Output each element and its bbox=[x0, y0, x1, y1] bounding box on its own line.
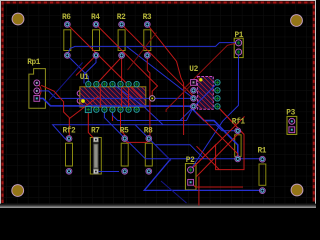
wire blue main bus Rp1 to U2 bbox=[37, 98, 194, 106]
svg-text:R4: R4 bbox=[91, 14, 100, 22]
resistor Rf2 body bbox=[66, 143, 73, 166]
wire blue R7 bottom stub bbox=[96, 171, 119, 173]
wire red R2 to U2 bbox=[122, 24, 194, 96]
connector P2 body bbox=[185, 164, 196, 190]
wire navy diagonal mid bbox=[158, 148, 171, 161]
wire red U1 to R5 bbox=[121, 110, 125, 139]
pad U1 pad1 bbox=[85, 107, 91, 113]
svg-text:Rp1: Rp1 bbox=[27, 59, 41, 67]
wire blue U1 pad3 to R5 bbox=[104, 110, 124, 139]
wire red U1 to Rf2 diagonal bbox=[69, 97, 98, 119]
pad P3 pad1 bbox=[289, 118, 295, 124]
wire blue U1 pad4 to U2 bbox=[112, 107, 193, 121]
wire red R4 down-left bbox=[76, 55, 96, 75]
pad P2 pad2 bbox=[188, 179, 194, 185]
mounting hole H2 bbox=[291, 15, 303, 27]
wire blue net1 top horizontal to P1 bbox=[67, 43, 238, 56]
pad R3 pad1 bbox=[144, 22, 150, 28]
pad P1 pad2 bbox=[236, 49, 242, 55]
wire red R3 to R8 bbox=[147, 55, 150, 138]
pad U2 pad3 bbox=[191, 96, 197, 102]
wire red diagonal parallel bbox=[197, 134, 239, 177]
resistor R6 body bbox=[64, 30, 71, 51]
svg-text:R5: R5 bbox=[120, 128, 129, 136]
wire darkred diagonal top bbox=[128, 33, 157, 71]
wire blue bottom horizontal to R1 bbox=[144, 159, 262, 191]
pad U1 pad6 bbox=[126, 107, 131, 112]
pad R8 pad1 bbox=[146, 136, 152, 142]
wire red P1 diagonal bbox=[166, 43, 238, 112]
pad Rp1 pad1 bbox=[34, 80, 40, 86]
pad U1 pad5 bbox=[118, 107, 123, 112]
resistor R3 body bbox=[144, 30, 151, 51]
pad U1 pad10 bbox=[118, 81, 123, 86]
pad P1 pad1 bbox=[236, 40, 242, 46]
resistor Rf1 body bbox=[235, 135, 241, 157]
pad Rf1 pad2 bbox=[235, 156, 241, 162]
IC U1 notch bbox=[77, 91, 80, 104]
wire red R2 bottom vertical bbox=[121, 55, 123, 109]
wire red stub Rf1 top bbox=[237, 129, 239, 131]
wire red vertical to edge bbox=[198, 177, 200, 206]
mounting hole H3 bbox=[12, 185, 24, 197]
pad R5 pad1 bbox=[122, 136, 128, 142]
wire darkred U2 left bbox=[184, 77, 200, 92]
svg-text:P3: P3 bbox=[286, 109, 295, 117]
wire red Rp1 to Rf2 bbox=[41, 85, 69, 139]
pad U1 pad3 bbox=[102, 107, 107, 112]
Rp1 wiper arc bbox=[39, 84, 42, 97]
pad R6 pad1 bbox=[64, 22, 70, 28]
wire red P2 loop bbox=[191, 106, 244, 169]
wire red P2 diagonal long bbox=[191, 117, 245, 170]
pad U1 pad4 bbox=[110, 107, 115, 112]
pad U1 pad7 bbox=[134, 107, 139, 112]
pad U2 pad6 bbox=[215, 96, 220, 101]
U2 pin1 marker bbox=[199, 78, 202, 81]
wire red U1 to R7 bbox=[88, 110, 96, 140]
pad R1 pad2 bbox=[260, 188, 266, 194]
wire red R4 to via bbox=[96, 24, 158, 98]
pad R8 pad2 bbox=[146, 168, 152, 174]
pad U1 pad12 bbox=[102, 81, 107, 86]
wire red U2 to right bbox=[217, 106, 244, 134]
pad P2 pad1 bbox=[188, 167, 194, 173]
via V1 bbox=[149, 96, 155, 102]
resistor R4 body bbox=[93, 30, 100, 51]
pad P3 pad2 bbox=[289, 127, 295, 133]
pad U1 pad11 bbox=[110, 81, 115, 86]
wire blue mid horizontal 144 bbox=[155, 145, 204, 159]
pad R4 pad1 bbox=[93, 22, 99, 28]
wire blue horizontal 158 to R1 bbox=[145, 158, 262, 160]
mounting hole H4 bbox=[291, 184, 303, 196]
wire red R3 down right bbox=[147, 24, 183, 135]
wire red U1 pad4 stub bbox=[111, 110, 113, 121]
svg-text:R6: R6 bbox=[62, 14, 71, 22]
wire blue R5 to bus bbox=[125, 138, 146, 159]
wire red U1 to R2 bbox=[96, 57, 121, 84]
wire blue Rp1 to U2 pad3 bbox=[37, 91, 194, 99]
wire blue to Rf1 top bbox=[216, 125, 238, 131]
wire red R5 to R8 jog bbox=[125, 140, 149, 142]
wire red R6 to U1 bbox=[67, 24, 142, 98]
svg-text:R1: R1 bbox=[258, 147, 267, 155]
pad U1 pad2 bbox=[94, 107, 99, 112]
svg-text:P2: P2 bbox=[186, 157, 195, 165]
connector P3 body bbox=[287, 116, 297, 134]
pad Rf2 pad2 bbox=[66, 168, 72, 174]
pad U2 pad8 bbox=[215, 80, 220, 85]
wire blue R4 down bbox=[84, 55, 96, 83]
wire blue across U2 bbox=[180, 85, 216, 121]
resistor R7 body bbox=[90, 138, 101, 175]
pad R1 pad1 bbox=[260, 156, 266, 162]
svg-text:R8: R8 bbox=[144, 128, 153, 136]
svg-text:U1: U1 bbox=[80, 74, 89, 82]
pad Rp1 pad3 bbox=[34, 96, 40, 102]
wire red U2 to Rf1 bottom bbox=[196, 112, 238, 159]
pad R7 pad1 bbox=[94, 137, 99, 142]
pad R3 pad2 bbox=[144, 53, 150, 59]
resistor R8 body bbox=[145, 143, 152, 166]
pad U2 pad7 bbox=[215, 88, 220, 93]
connector P1 body bbox=[234, 38, 243, 57]
svg-text:R2: R2 bbox=[117, 14, 126, 22]
pad U1 pad13 bbox=[94, 81, 99, 86]
pad Rf1 pad1 bbox=[235, 128, 241, 134]
IC U1 body bbox=[80, 87, 146, 107]
pad Rp1 pad2 bbox=[34, 88, 40, 94]
pad U2 pad4 bbox=[191, 104, 197, 110]
svg-text:P1: P1 bbox=[235, 32, 244, 40]
potentiometer Rp1 body bbox=[29, 69, 46, 109]
wire blue R6 to U1 pad1 bbox=[67, 55, 88, 84]
svg-text:Rf2: Rf2 bbox=[63, 128, 77, 136]
mounting hole H1 bbox=[12, 13, 24, 25]
pad U1 pad9 bbox=[126, 81, 131, 86]
pad U1 pad8 bbox=[134, 81, 139, 86]
wire navy diagonal bottom bbox=[161, 181, 187, 203]
svg-text:R7: R7 bbox=[91, 128, 100, 136]
pad R5 pad2 bbox=[122, 168, 128, 174]
pad R7 pad2 bbox=[94, 169, 99, 174]
svg-text:Rf1: Rf1 bbox=[232, 119, 246, 127]
pad R6 pad2 bbox=[64, 53, 70, 59]
wire red through U1 b bbox=[99, 84, 101, 107]
wire red through U1 bbox=[128, 84, 130, 110]
wire blue diagonal to U2 bbox=[127, 46, 194, 98]
pad R4 pad2 bbox=[93, 53, 99, 59]
U1 pin1 marker bbox=[81, 99, 85, 103]
pad U1 pad14 bbox=[86, 81, 91, 86]
bottom gray edge bbox=[0, 204, 316, 205]
wire blue P1 to P2 bbox=[191, 52, 239, 170]
wire red P2 bottom horizontal bbox=[191, 182, 243, 187]
pad U2 pad2 bbox=[191, 88, 197, 94]
resistor R5 body bbox=[121, 143, 128, 166]
svg-text:R3: R3 bbox=[143, 14, 152, 22]
wire blue bus branch to Rf1 bbox=[189, 106, 238, 159]
IC U2 body bbox=[197, 77, 213, 110]
pad U2 pad1 bbox=[191, 80, 197, 86]
wire red diag to loop bbox=[197, 146, 220, 169]
wire blue across U1 bbox=[113, 84, 163, 125]
pad U2 pad5 bbox=[215, 104, 220, 109]
pad R2 pad2 bbox=[119, 53, 125, 59]
pad R2 pad1 bbox=[119, 22, 125, 28]
pad Rf2 pad1 bbox=[66, 136, 72, 142]
wire blue branch to R8 and bus bbox=[135, 125, 169, 159]
wire navy diagonal left bbox=[49, 63, 83, 101]
wire blue horizontal 124 to Rf2 bbox=[53, 125, 216, 140]
svg-text:U2: U2 bbox=[189, 66, 198, 74]
resistor R2 body bbox=[118, 30, 125, 51]
resistor R1 body bbox=[259, 164, 266, 185]
